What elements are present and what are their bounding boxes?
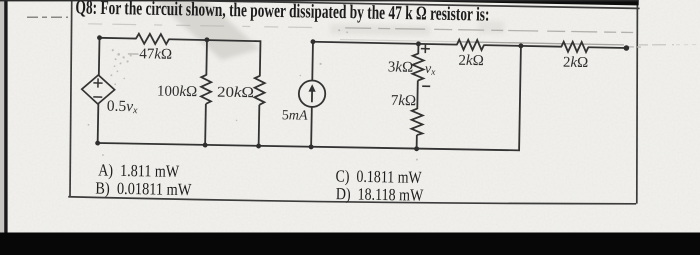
question box right border [636, 0, 639, 204]
junction node 100k top [204, 37, 209, 42]
wire between 3k and 7k [416, 81, 418, 109]
scan watermark band mid [330, 24, 430, 36]
dashed ghost line under question right [345, 27, 633, 32]
wire top rail left section [99, 37, 136, 40]
junction node current source top [310, 39, 315, 44]
junction node 3k top [416, 41, 421, 46]
wire 3k7k branch lower [416, 135, 418, 149]
junction node current source bottom [309, 144, 314, 149]
plus sign vx [421, 44, 430, 53]
wire left branch lower [97, 104, 100, 144]
minus sign in diamond [93, 96, 102, 98]
dependent source diamond 0.5vx [82, 75, 115, 105]
scan watermark blob near 47k [148, 0, 261, 61]
svg-text:47kΩ: 47kΩ [139, 46, 172, 63]
current source arrow [308, 84, 316, 102]
plus sign in diamond [93, 78, 102, 87]
ghost line above right rail b [460, 42, 624, 45]
resistor 100k zigzag [201, 75, 212, 104]
resistor 2k second zigzag [561, 42, 588, 52]
wire top rail right section c [588, 46, 626, 49]
svg-text:7kΩ: 7kΩ [391, 93, 417, 109]
question box left border [70, 0, 72, 197]
minus sign vx [422, 85, 430, 87]
terminal node right end [624, 45, 630, 51]
dashes left of box [27, 16, 68, 18]
svg-text:2kΩ: 2kΩ [563, 55, 589, 71]
svg-text:B) 0.01811 mW: B) 0.01811 mW [95, 178, 192, 199]
dashes right of box [639, 44, 674, 46]
wire current source branch upper [311, 42, 314, 81]
svg-text:100kΩ: 100kΩ [157, 84, 198, 101]
wire 100k branch upper [205, 40, 208, 76]
left scan edge black line [4, 0, 7, 233]
resistor 7k zigzag [411, 108, 422, 135]
wire 20k branch lower [258, 105, 261, 147]
ghost line above right rail [340, 40, 460, 42]
question box top border [71, 0, 640, 8]
junction node between 2k resistors [518, 43, 523, 48]
dashed ghost right of terminal [629, 46, 641, 48]
svg-text:20kΩ: 20kΩ [217, 85, 254, 102]
scan speckles cluster [87, 25, 420, 162]
wire 20k branch upper [259, 40, 262, 76]
bottom black scan bar [0, 233, 700, 255]
svg-text:5mA: 5mA [282, 108, 308, 123]
svg-text:3kΩ: 3kΩ [388, 59, 414, 75]
resistor 47k zigzag [136, 34, 169, 45]
wire top rail left section b [168, 39, 260, 41]
dashed ghost line under question [88, 24, 330, 28]
current source 5mA circle [299, 80, 326, 107]
resistor 2k first zigzag [457, 40, 484, 50]
junction node 20k bottom [256, 144, 261, 149]
wire bottom rail [98, 39, 521, 151]
junction node 7k bottom [414, 146, 419, 151]
resistor 20k zigzag [254, 76, 265, 105]
wire 3k7k branch upper [417, 44, 419, 54]
svg-text:D) 18.118 mW: D) 18.118 mW [336, 184, 425, 205]
question box bottom border [68, 194, 636, 207]
top scan edge thin line [0, 0, 638, 1]
svg-text:2kΩ: 2kΩ [458, 53, 484, 69]
black scan bar above top border [389, 0, 639, 5]
left scan edge gray strip [0, 0, 4, 233]
junction node 100k bottom [203, 143, 208, 148]
junction node top-left corner [97, 35, 102, 40]
wire left branch upper [98, 38, 101, 76]
wire top rail right section b [483, 45, 561, 47]
scan watermark small [478, 21, 504, 34]
wire top rail right section [313, 42, 457, 45]
wire 100k branch lower [204, 104, 207, 146]
wire current source branch lower [310, 107, 313, 148]
resistor 3k zigzag [412, 53, 423, 80]
junction node bottom-left corner [95, 141, 100, 146]
